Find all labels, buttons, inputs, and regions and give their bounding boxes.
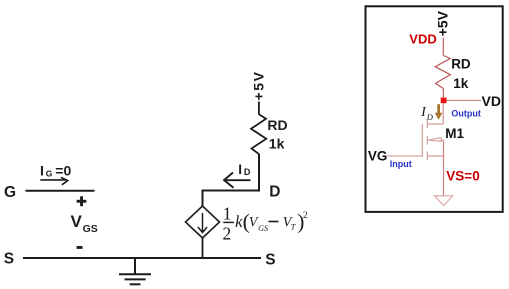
- svg-text:G: G: [4, 184, 16, 201]
- svg-text:G: G: [46, 169, 53, 179]
- svg-text:V: V: [71, 212, 83, 231]
- current label ID (inset): [420, 104, 434, 122]
- svg-text:D: D: [244, 167, 251, 177]
- svg-text:1k: 1k: [453, 76, 469, 91]
- wire source top to node D: [203, 154, 260, 206]
- voltage label VGS: [71, 212, 98, 235]
- svg-text:D: D: [269, 184, 280, 201]
- svg-text:I: I: [238, 162, 242, 177]
- ground (inset triangle): [435, 196, 453, 206]
- arrow ID (points left): [224, 173, 251, 188]
- arrow ID (inset, brown, points down): [435, 104, 443, 120]
- wire gate (inset): [386, 155, 422, 157]
- svg-text:VG: VG: [368, 148, 388, 163]
- value label 1/2 k(VGS-VT)^2: [223, 204, 308, 244]
- svg-text:RD: RD: [451, 56, 471, 71]
- svg-text:VS=0: VS=0: [446, 168, 479, 183]
- svg-text:VD: VD: [482, 93, 501, 109]
- current label ID (left schematic): [238, 162, 251, 177]
- wire node to VD label: [447, 99, 482, 101]
- svg-text:2: 2: [303, 211, 308, 221]
- wire gate: [26, 190, 95, 192]
- transistor M1: [422, 120, 443, 161]
- resistor RD (inset): [435, 56, 450, 89]
- ground: [119, 258, 151, 284]
- svg-text:+5V: +5V: [250, 70, 266, 100]
- svg-text:=0: =0: [55, 163, 71, 179]
- wire resistor to node VD: [442, 89, 444, 98]
- minus sign of VGS: [77, 246, 83, 249]
- wire supply to resistor: [258, 102, 260, 115]
- wire node to drain: [442, 103, 444, 124]
- svg-text:1k: 1k: [269, 136, 285, 152]
- wire source bottom to rail: [202, 238, 204, 258]
- wire VDD to resistor: [442, 38, 444, 56]
- svg-text:+5V: +5V: [435, 10, 451, 36]
- current label IG = 0: [40, 163, 71, 179]
- wire source to ground (inset): [443, 140, 445, 195]
- svg-text:GS: GS: [83, 223, 98, 235]
- dependent current source G1 (diamond with down arrow): [186, 206, 220, 238]
- wire source (bottom rail): [23, 257, 261, 259]
- svg-text:1: 1: [223, 204, 232, 224]
- plus sign of VGS: [77, 196, 87, 206]
- svg-text:T: T: [291, 222, 297, 231]
- svg-text:S: S: [265, 252, 275, 269]
- arrow IG (points right): [40, 177, 67, 184]
- svg-text:Output: Output: [451, 109, 481, 119]
- svg-text:M1: M1: [445, 126, 464, 141]
- svg-text:S: S: [4, 251, 14, 268]
- svg-text:GS: GS: [258, 224, 268, 233]
- svg-text:2: 2: [223, 223, 232, 243]
- svg-text:Input: Input: [390, 159, 412, 169]
- node VD (red square): [441, 98, 447, 104]
- svg-text:VDD: VDD: [409, 31, 436, 46]
- svg-text:RD: RD: [267, 117, 287, 133]
- resistor RD (left schematic): [251, 114, 266, 154]
- svg-text:I: I: [40, 163, 44, 179]
